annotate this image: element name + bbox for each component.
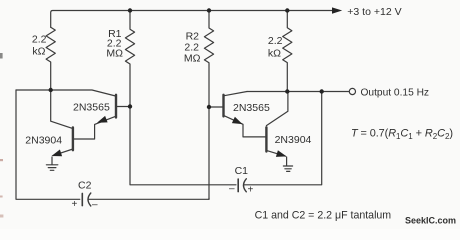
svg-text:2N3565: 2N3565 xyxy=(73,102,110,114)
svg-text:2N3904: 2N3904 xyxy=(25,135,62,147)
svg-text:SeekIC.com: SeekIC.com xyxy=(405,215,456,225)
svg-text:–: – xyxy=(92,200,98,211)
svg-text:MΩ: MΩ xyxy=(106,48,123,60)
svg-text:2N3904: 2N3904 xyxy=(275,134,312,146)
svg-text:kΩ: kΩ xyxy=(32,46,45,58)
svg-text:+3 to +12 V: +3 to +12 V xyxy=(347,6,401,18)
svg-text:–: – xyxy=(229,184,235,195)
svg-text:2.2: 2.2 xyxy=(268,35,283,47)
svg-text:+: + xyxy=(72,199,78,210)
svg-text:C1: C1 xyxy=(235,165,249,177)
svg-text:Output 0.15 Hz: Output 0.15 Hz xyxy=(361,88,430,99)
svg-text:MΩ: MΩ xyxy=(184,53,201,65)
svg-text:+: + xyxy=(248,185,254,196)
svg-text:T = 0.7(R1C1 + R2C2): T = 0.7(R1C1 + R2C2) xyxy=(351,128,453,142)
svg-text:C2: C2 xyxy=(78,180,92,192)
svg-text:C1 and C2 = 2.2 μF tantalum: C1 and C2 = 2.2 μF tantalum xyxy=(255,210,392,222)
svg-text:2N3565: 2N3565 xyxy=(233,102,270,114)
svg-text:kΩ: kΩ xyxy=(268,48,281,60)
svg-text:2.2: 2.2 xyxy=(32,34,47,46)
